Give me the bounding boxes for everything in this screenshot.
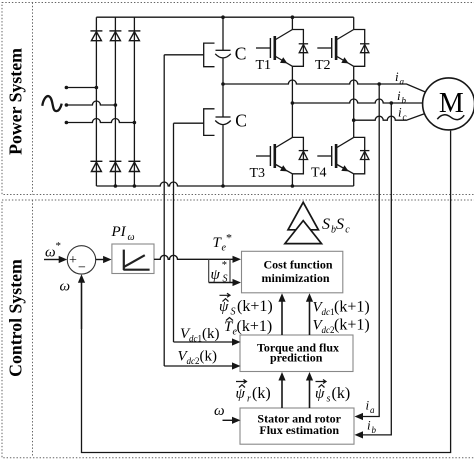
svg-text:r: r	[247, 394, 251, 405]
svg-text:dc: dc	[322, 325, 331, 335]
svg-text:ψ: ψ	[219, 299, 229, 315]
svg-text:dc: dc	[322, 307, 331, 317]
svg-text:s: s	[327, 394, 331, 405]
svg-text:ψ: ψ	[211, 267, 221, 283]
svg-text:c: c	[345, 225, 350, 236]
svg-text:a: a	[370, 405, 375, 415]
svg-text:T2: T2	[315, 58, 331, 73]
svg-text:*: *	[222, 260, 227, 271]
svg-text:c: c	[403, 112, 407, 122]
svg-text:*: *	[56, 240, 62, 252]
svg-text:(k): (k)	[202, 326, 220, 342]
svg-text:+: +	[69, 253, 77, 268]
svg-text:prediction: prediction	[270, 351, 323, 365]
svg-text:ω: ω	[128, 232, 135, 243]
svg-text:(k): (k)	[200, 349, 218, 365]
svg-text:(k+1): (k+1)	[237, 318, 273, 335]
svg-text:minimization: minimization	[262, 271, 330, 285]
svg-text:Flux estimation: Flux estimation	[259, 423, 339, 437]
svg-text:T4: T4	[311, 166, 327, 181]
svg-text:PI: PI	[111, 224, 127, 240]
svg-text:dc: dc	[187, 356, 196, 366]
svg-text:T1: T1	[256, 58, 272, 73]
svg-text:Control System: Control System	[6, 259, 26, 377]
svg-text:Cost function: Cost function	[263, 257, 332, 271]
svg-text:(k): (k)	[332, 385, 351, 402]
svg-text:i: i	[366, 398, 370, 413]
svg-text:C: C	[235, 44, 247, 64]
svg-text:C: C	[235, 111, 247, 131]
svg-text:b: b	[372, 425, 377, 435]
svg-text:ω: ω	[60, 279, 71, 295]
svg-text:S: S	[336, 216, 344, 233]
svg-text:(k+1): (k+1)	[334, 299, 370, 316]
svg-text:S: S	[231, 307, 236, 318]
svg-text:−: −	[78, 261, 86, 276]
svg-text:(k+1): (k+1)	[237, 298, 273, 315]
svg-text:S: S	[322, 216, 330, 233]
svg-text:ψ: ψ	[315, 386, 325, 402]
svg-text:T3: T3	[250, 166, 266, 181]
svg-text:ω: ω	[214, 403, 225, 419]
svg-text:Power System: Power System	[6, 48, 26, 155]
svg-text:i: i	[397, 88, 401, 103]
svg-text:ω: ω	[45, 245, 56, 261]
svg-text:i: i	[395, 69, 399, 84]
svg-text:dc: dc	[189, 334, 198, 344]
svg-text:S: S	[223, 274, 228, 285]
svg-text:(k): (k)	[252, 385, 271, 402]
svg-text:b: b	[402, 96, 407, 106]
svg-text:ψ: ψ	[236, 386, 246, 402]
svg-text:*: *	[226, 231, 232, 245]
svg-text:i: i	[367, 418, 371, 433]
svg-text:i: i	[398, 105, 402, 120]
svg-text:a: a	[400, 77, 405, 87]
svg-text:(k+1): (k+1)	[334, 317, 370, 334]
